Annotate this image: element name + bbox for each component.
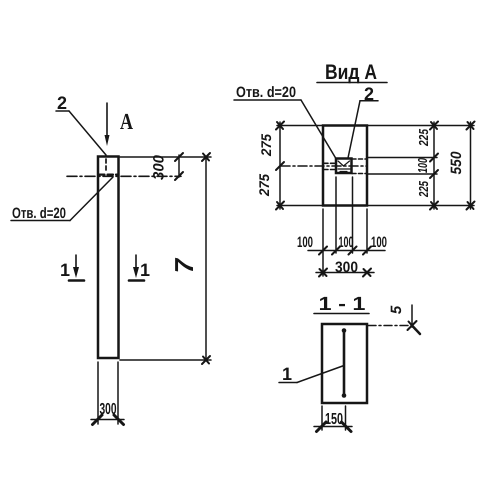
dim line 300 (plan): [316, 272, 374, 274]
column elevation outline: [98, 157, 119, 359]
plan outline: [323, 126, 367, 206]
section mark 1 right: [135, 255, 137, 272]
svg-text:Отв. d=20: Отв. d=20: [12, 205, 66, 222]
hidden lines right of plate: [352, 159, 366, 174]
tick: [202, 153, 210, 161]
dim line 550: [470, 122, 472, 209]
dim line 150: [314, 426, 352, 428]
hole label underline and leader (plan): [234, 100, 338, 162]
tick: [175, 172, 183, 180]
svg-text:A: A: [120, 109, 133, 134]
title underline: [314, 313, 369, 315]
tick: [349, 247, 357, 255]
tick: [175, 153, 183, 161]
tick: [332, 247, 340, 255]
dim line 225/100/225: [433, 122, 435, 209]
tick: [408, 321, 417, 330]
label 2 leader (plan): [348, 101, 378, 158]
dim 5 dashed line: [368, 325, 412, 327]
hole edge dashes (elevation): [99, 174, 118, 176]
svg-text:100: 100: [339, 234, 354, 251]
tick: [430, 170, 438, 178]
section mark 1 left: [75, 255, 77, 272]
dim line overall length 7: [205, 157, 207, 360]
embedded plate (plan): [336, 159, 352, 174]
tick: [276, 162, 284, 170]
tick: [276, 122, 284, 130]
svg-text:Вид А: Вид А: [325, 61, 377, 84]
arrow tail: [412, 326, 420, 335]
svg-text:7: 7: [169, 257, 199, 273]
bottom extension line (elevation): [120, 359, 211, 361]
svg-text:100: 100: [415, 157, 430, 173]
hole label leader (elevation): [11, 177, 113, 221]
svg-text:300: 300: [151, 154, 168, 180]
centerline (plan): [281, 165, 367, 167]
arrow dart right: [342, 422, 352, 432]
dim line 300 bottom (elevation): [91, 419, 124, 421]
label 2 leader (elevation): [56, 111, 106, 155]
svg-text:2: 2: [364, 84, 374, 104]
bottom width extension lines (elevation): [98, 362, 118, 424]
svg-text:5: 5: [388, 305, 405, 314]
top extension line (elevation): [120, 156, 211, 158]
dim line 275/275: [279, 122, 281, 209]
dim line 300 top (elevation): [178, 155, 180, 177]
rebar item 1: [343, 330, 346, 396]
hidden hole lines left of plate: [324, 163, 336, 169]
label 1 leader (section): [279, 366, 344, 383]
arrow dart left: [93, 415, 103, 425]
arrow dart right: [114, 415, 124, 425]
svg-text:Отв. d=20: Отв. d=20: [236, 84, 296, 101]
tick: [430, 122, 438, 130]
svg-text:225: 225: [416, 180, 431, 197]
hole hidden line (elevation): [105, 159, 107, 172]
svg-text:300: 300: [100, 401, 117, 418]
tick: [202, 356, 210, 364]
dim line 100/100/100: [308, 250, 385, 252]
section outline: [322, 324, 367, 403]
centerline (elevation): [67, 175, 181, 177]
title underline: [317, 82, 387, 84]
tick: [430, 154, 438, 162]
svg-text:1: 1: [282, 364, 292, 384]
right extension lines (plan): [367, 126, 474, 206]
svg-text:300: 300: [335, 259, 358, 276]
view direction arrow A: [106, 103, 108, 140]
dim 5 extension line: [411, 305, 413, 327]
left extension lines (plan): [277, 126, 323, 206]
plate inner marks: [338, 161, 350, 172]
tick: [363, 269, 371, 277]
svg-text:1: 1: [140, 260, 150, 280]
tick: [276, 202, 284, 210]
svg-text:100: 100: [371, 234, 387, 251]
tick: [467, 122, 475, 130]
arrow dart left: [317, 422, 327, 432]
svg-text:225: 225: [416, 128, 431, 146]
svg-text:550: 550: [448, 151, 465, 175]
svg-text:2: 2: [57, 93, 67, 113]
svg-text:275: 275: [256, 174, 272, 197]
svg-text:150: 150: [325, 411, 343, 428]
svg-text:1 - 1: 1 - 1: [319, 294, 367, 315]
svg-text:1: 1: [60, 260, 70, 280]
bottom extension lines (plan): [323, 177, 367, 276]
tick: [363, 247, 371, 255]
150 extension lines: [322, 406, 346, 430]
svg-text:275: 275: [258, 134, 274, 157]
svg-text:100: 100: [297, 234, 313, 251]
tick: [319, 269, 327, 277]
tick: [467, 202, 475, 210]
tick: [430, 202, 438, 210]
tick: [319, 247, 327, 255]
